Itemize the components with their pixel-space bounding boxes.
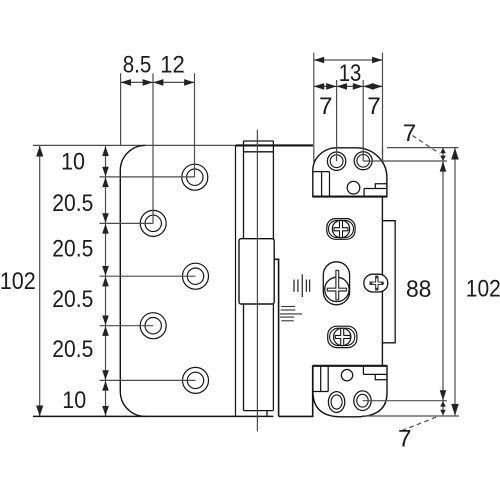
102 dim line right	[454, 148, 456, 416]
ext line screw col 363.2	[362, 80, 364, 161]
svg-text:7: 7	[403, 120, 417, 147]
bracket hole right	[354, 391, 371, 411]
svg-text:8.5: 8.5	[123, 51, 152, 78]
dim line 8.5/12	[121, 81, 195, 83]
svg-text:12: 12	[160, 51, 185, 78]
svg-text:20.5: 20.5	[52, 190, 93, 217]
row tick lines to hole centers	[100, 164, 196, 380]
ext line hole col x194.5	[194, 73, 196, 177]
DIMENSIONS-RIGHT-TOP 13/7/7	[314, 53, 383, 162]
dome inner rects	[313, 172, 330, 197]
plate holes	[140, 164, 208, 393]
barrel top cap	[244, 140, 274, 142]
dome small circle	[347, 181, 360, 194]
BOTTOM BRACKET	[313, 366, 387, 417]
dome screw hole right	[354, 152, 372, 170]
hole 2	[140, 210, 166, 236]
frame edge bottom segment	[279, 366, 313, 417]
cross tips small screw	[370, 276, 384, 290]
plate left edge with round corners	[120, 145, 145, 416]
ext line body right	[382, 53, 384, 161]
bottom 7 arrows	[440, 401, 446, 407]
dim line 102 left	[39, 146, 41, 416]
hole 4	[140, 313, 166, 339]
arrows 7-7	[314, 83, 324, 90]
TOP OVAL SCREW	[327, 219, 355, 240]
LEFT PLATE	[33, 145, 313, 416]
ext line bottom screw y400.7	[363, 400, 448, 402]
dim line 7-7	[314, 85, 383, 87]
side plate	[382, 221, 395, 343]
HATCH MARKS horizontal	[280, 307, 302, 321]
plate right edge	[235, 145, 237, 416]
svg-text:13: 13	[339, 60, 362, 87]
DIMENSIONS-LEFT-TOP	[121, 73, 195, 223]
TOP BRACKET dome	[313, 146, 387, 197]
ext lines into screw holes	[336, 146, 338, 161]
DIMENSION 102 LEFT	[39, 146, 41, 416]
svg-text:10: 10	[62, 387, 86, 414]
svg-text:20.5: 20.5	[52, 286, 93, 313]
svg-text:10: 10	[61, 148, 85, 175]
HATCH MARKS vertical	[294, 274, 310, 297]
RIGHT BODY right edge	[381, 197, 383, 366]
barrel sleeve	[239, 239, 274, 304]
barrel left edge	[243, 141, 245, 411]
cross capsule screw	[327, 270, 346, 300]
ext line screw center y161.2	[363, 160, 447, 162]
RIGHT SMALL SCREW	[364, 274, 388, 292]
barrel right edge	[272, 141, 274, 411]
hole 3	[183, 263, 209, 289]
svg-text:7: 7	[319, 93, 333, 120]
hole 5	[183, 367, 209, 393]
ext line top y147.6	[387, 147, 459, 149]
barrel bottom cap	[244, 410, 274, 412]
dome screw hole left	[327, 152, 345, 170]
svg-text:7: 7	[367, 93, 381, 120]
svg-text:7: 7	[398, 426, 412, 453]
svg-text:20.5: 20.5	[52, 235, 93, 262]
cross bottom screw	[335, 328, 350, 345]
cross small screw	[370, 276, 383, 290]
bracket top edge thick	[313, 365, 387, 367]
ext line body right through dome	[382, 148, 384, 161]
svg-text:102: 102	[0, 268, 36, 295]
svg-text:102: 102	[466, 276, 500, 303]
dashed callout top 7	[413, 136, 440, 154]
bracket steps	[363, 366, 387, 380]
plate bottom edge / ground left	[33, 415, 273, 417]
barrel axis line	[256, 130, 258, 432]
88 arrows	[440, 161, 447, 171]
dashed callout bottom 7	[402, 417, 436, 430]
bracket inner rects	[313, 366, 328, 392]
hole 1	[182, 164, 208, 190]
sleeve-to-frame step	[274, 259, 278, 416]
ext line body left	[313, 53, 315, 162]
BIG CAPSULE SCREW	[323, 262, 349, 305]
bracket hole left	[328, 392, 344, 413]
88 dim line	[442, 148, 444, 416]
stacked dim arrow pairs	[102, 146, 109, 416]
arrows 8.5/12	[121, 79, 195, 86]
ext line plate left edge top	[120, 73, 122, 146]
ground line right	[362, 415, 459, 417]
RIGHT DIMENSIONS 7/88/102	[362, 136, 459, 431]
dim line 13	[314, 59, 383, 61]
arrows 13	[314, 57, 383, 90]
arrows 102 left	[36, 146, 43, 416]
cross top screw	[334, 221, 348, 238]
BOTTOM OVAL SCREW	[328, 326, 357, 347]
top 7 arrows	[440, 148, 446, 153]
dome steps	[364, 184, 387, 197]
plate top edge extension thin	[33, 144, 236, 146]
svg-text:88: 88	[406, 276, 432, 303]
dome bottom edge thick	[313, 196, 387, 198]
ext line screw col 336.6	[336, 80, 338, 161]
svg-text:20.5: 20.5	[52, 336, 93, 363]
plate top edge thick over barrel	[236, 144, 313, 146]
BARREL	[244, 141, 274, 416]
ext line hole col x153	[152, 73, 154, 223]
STACKED DIMS x=105.5	[105, 146, 107, 416]
ext lines into holes vertical	[152, 210, 154, 223]
102 arrows	[451, 148, 459, 160]
bracket small circle	[341, 370, 352, 381]
